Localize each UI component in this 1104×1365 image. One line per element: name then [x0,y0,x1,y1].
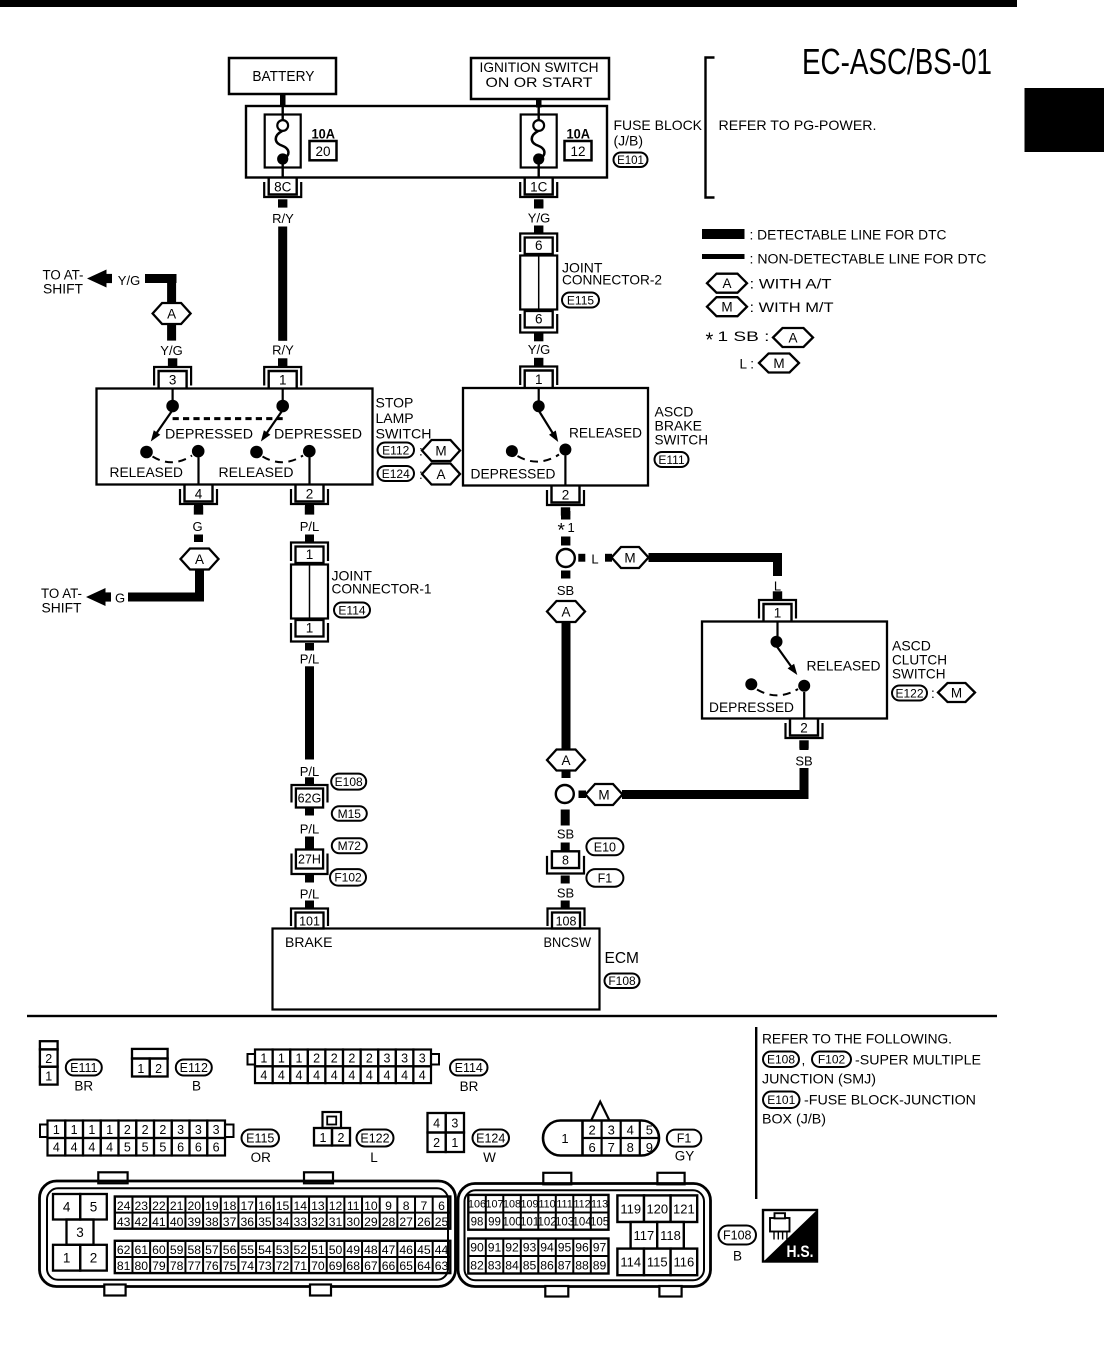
svg-text:25: 25 [435,1215,449,1229]
svg-text:114: 114 [620,1255,641,1270]
svg-text:27: 27 [399,1215,413,1229]
connector label E115 OR [242,1130,280,1166]
svg-text:92: 92 [505,1241,519,1255]
terminal 3 [154,358,191,388]
legend L M [740,354,800,373]
svg-text:EC-ASC/BS-01: EC-ASC/BS-01 [802,41,992,82]
svg-text:Y/G: Y/G [160,343,182,358]
svg-text:1: 1 [45,1070,52,1084]
svg-text:110: 110 [538,1199,555,1211]
wire *1 below terminal 2 [561,511,570,520]
svg-text:2: 2 [433,1136,440,1150]
svg-text:4: 4 [627,1123,634,1138]
connector label E122 with M [892,683,975,702]
svg-text:STOP: STOP [376,395,414,411]
svg-text:112: 112 [573,1199,590,1211]
svg-text:CONNECTOR-1: CONNECTOR-1 [332,581,432,597]
svg-text:3: 3 [401,1052,408,1066]
svg-text:91: 91 [488,1241,502,1255]
svg-text:F102: F102 [334,871,362,885]
svg-text:17: 17 [240,1199,254,1213]
svg-text:1: 1 [279,373,287,388]
svg-text:66: 66 [382,1259,396,1273]
svg-text:E112: E112 [382,443,409,457]
svg-text:102: 102 [537,1217,556,1229]
connector label E114 [334,603,370,618]
svg-text:A: A [722,276,731,291]
svg-text:A: A [195,552,204,567]
wire SB below junction [561,571,570,579]
hexagon A on SB wire lower [547,750,585,771]
svg-text:6: 6 [535,312,543,327]
connector label E114 BR [450,1060,488,1095]
svg-text:R/Y: R/Y [272,343,294,358]
svg-text:ON OR START: ON OR START [486,74,593,90]
connector label M72 [332,838,367,853]
svg-text:Y/G: Y/G [118,273,140,288]
svg-text:101: 101 [299,914,320,928]
ECM connector F108 right shell [458,1173,711,1297]
wire SB thick return [800,768,809,799]
wire G to AT-shift [195,570,204,602]
svg-text:F1: F1 [677,1132,692,1146]
wire SB below clutch terminal 2 [800,742,809,750]
svg-text:2: 2 [45,1052,52,1066]
wire SB thick [562,622,571,750]
svg-text:: NON-DETECTABLE LINE FOR DTC: : NON-DETECTABLE LINE FOR DTC [750,252,987,267]
svg-text:42: 42 [135,1215,149,1229]
terminal 108 [548,909,585,929]
svg-text:41: 41 [152,1215,166,1229]
svg-text:9: 9 [646,1140,653,1155]
svg-text:E122: E122 [360,1132,389,1146]
svg-text:63: 63 [435,1259,449,1273]
svg-text:119: 119 [620,1201,641,1216]
svg-text:2: 2 [313,1052,320,1066]
svg-text:1: 1 [320,1131,327,1145]
svg-text:SHIFT: SHIFT [43,282,83,297]
svg-text:1C: 1C [530,179,548,194]
svg-text:29: 29 [364,1215,378,1229]
connector label E101 [614,153,648,168]
svg-text:87: 87 [558,1258,572,1272]
svg-text:39: 39 [187,1215,201,1229]
connector label F108 [605,974,640,989]
svg-text:50: 50 [329,1243,343,1257]
hexagon A on G wire [181,549,219,570]
svg-text:RELEASED: RELEASED [219,465,294,480]
svg-text:108: 108 [556,914,577,928]
svg-text:117: 117 [634,1228,655,1243]
connector E112 pin view [132,1049,168,1077]
svg-text:99: 99 [488,1217,501,1229]
svg-text:1: 1 [88,1123,95,1137]
svg-text:64: 64 [417,1259,431,1273]
svg-text:L :: L : [740,357,755,372]
svg-text:E122: E122 [895,686,923,700]
svg-text:47: 47 [382,1243,396,1257]
hexagon A on Y/G wire [153,303,191,324]
svg-text:6: 6 [195,1141,202,1155]
svg-text:38: 38 [205,1215,219,1229]
svg-text:10A: 10A [567,126,591,142]
wire R/Y thick [278,227,287,341]
svg-text:E10: E10 [594,840,616,854]
svg-text:SB: SB [557,583,574,598]
svg-text:BR: BR [74,1079,93,1094]
svg-text:1: 1 [278,1052,285,1066]
fuse block E101 box [246,106,607,178]
svg-text:DEPRESSED: DEPRESSED [274,427,362,442]
svg-text:E115: E115 [567,293,594,307]
svg-text:6: 6 [177,1141,184,1155]
svg-text:BOX (J/B): BOX (J/B) [762,1111,826,1127]
joint connector-1 E114 [291,543,328,642]
legend *1 SB A [706,328,814,352]
svg-text:10A: 10A [312,126,336,142]
svg-text:IGNITION SWITCH: IGNITION SWITCH [480,59,599,75]
svg-text:7: 7 [608,1140,615,1155]
connector label F102 [330,869,366,886]
connector label E101 fuse block [763,1092,976,1109]
svg-text::: : [931,686,935,701]
svg-text:11: 11 [347,1199,360,1213]
svg-text:113: 113 [591,1199,608,1211]
svg-text:56: 56 [223,1243,237,1257]
svg-text:60: 60 [152,1243,166,1257]
svg-text:12: 12 [570,144,585,159]
svg-text:SB: SB [795,754,812,769]
connector label E124 with A [378,464,461,485]
svg-text:78: 78 [170,1259,184,1273]
svg-text:Y/G: Y/G [528,342,550,357]
svg-text:31: 31 [329,1215,343,1229]
svg-text:4: 4 [313,1068,320,1082]
svg-text:E115: E115 [246,1132,274,1146]
svg-text:109: 109 [521,1199,539,1211]
svg-text:-FUSE BLOCK-JUNCTION: -FUSE BLOCK-JUNCTION [804,1092,976,1108]
svg-text:120: 120 [646,1201,668,1216]
terminal 4 [180,485,217,515]
terminal 101 [291,909,328,929]
svg-text:48: 48 [364,1243,378,1257]
svg-text:: DETECTABLE LINE FOR DTC: : DETECTABLE LINE FOR DTC [750,228,947,243]
svg-text:81: 81 [117,1259,131,1273]
svg-text:4: 4 [71,1141,78,1155]
connector label E10 [586,838,623,855]
svg-text:1: 1 [296,1052,303,1066]
svg-text:85: 85 [523,1258,537,1272]
svg-text:GY: GY [675,1149,695,1164]
svg-text:B: B [733,1249,742,1264]
svg-text:ECM: ECM [605,950,639,967]
svg-text:OR: OR [251,1150,272,1165]
svg-text:2: 2 [306,486,314,501]
terminal 1C [520,178,557,208]
fuse F20 number 20 [310,141,337,160]
svg-text:58: 58 [187,1243,201,1257]
svg-text:101: 101 [520,1217,539,1229]
wire stub L [578,554,585,562]
svg-text:69: 69 [329,1259,343,1273]
svg-text:(J/B): (J/B) [614,133,644,149]
fuse F20 10A [265,107,301,178]
ECM box [273,929,600,1010]
svg-text:SHIFT: SHIFT [42,601,82,616]
svg-text:E114: E114 [338,603,365,617]
ascd clutch switch box [702,622,887,719]
svg-text:3: 3 [213,1123,220,1137]
svg-text:23: 23 [135,1199,149,1213]
svg-text:5: 5 [646,1123,653,1138]
svg-text:1: 1 [63,1251,71,1266]
svg-text:28: 28 [382,1215,396,1229]
svg-text:3: 3 [195,1123,202,1137]
svg-text:70: 70 [311,1259,325,1273]
svg-text:H.S.: H.S. [787,1243,814,1261]
svg-text:74: 74 [240,1259,254,1273]
junction node *1 [557,549,575,567]
svg-text:E111: E111 [658,453,685,467]
svg-text:82: 82 [470,1258,484,1272]
ECM connector pins 114-121 [617,1195,697,1275]
wire G below terminal 4 [194,505,203,513]
svg-text:L: L [591,552,598,567]
svg-text:59: 59 [170,1243,184,1257]
svg-text:: WITH M/T: : WITH M/T [750,300,834,315]
svg-text:77: 77 [187,1259,201,1273]
svg-text:SWITCH: SWITCH [376,426,432,442]
svg-text:E101: E101 [617,155,644,167]
svg-text:SB: SB [557,827,574,842]
svg-text:SB: SB [557,886,574,901]
svg-text:1: 1 [71,1123,78,1137]
connector label E122 L [357,1130,394,1166]
svg-text:26: 26 [417,1215,431,1229]
svg-text:M: M [773,356,784,371]
svg-text:,: , [802,1053,806,1068]
svg-text:62G: 62G [298,792,322,806]
svg-text:RELEASED: RELEASED [569,426,642,441]
svg-text:14: 14 [293,1199,307,1213]
svg-text:40: 40 [170,1215,184,1229]
svg-text:G: G [192,519,202,534]
svg-text:P/L: P/L [300,822,320,837]
svg-text:111: 111 [556,1199,572,1211]
connector label E112 B [176,1060,212,1094]
svg-text:5: 5 [90,1200,98,1215]
svg-text:RELEASED: RELEASED [110,465,184,480]
svg-text:103: 103 [555,1217,574,1229]
svg-text:2: 2 [366,1052,373,1066]
svg-text:P/L: P/L [300,519,320,534]
svg-text:71: 71 [293,1259,307,1273]
svg-text:20: 20 [187,1199,201,1213]
svg-text:1: 1 [53,1123,60,1137]
svg-text:45: 45 [417,1243,431,1257]
junction node SB [556,785,574,803]
svg-text:A: A [788,330,797,345]
terminal 2 ascd clutch [786,719,823,749]
svg-text:13: 13 [311,1199,325,1213]
svg-text:1: 1 [260,1052,267,1066]
svg-text:30: 30 [346,1215,360,1229]
svg-text:Y/G: Y/G [528,211,550,226]
terminal 1 ascd clutch [759,591,796,621]
svg-text:4: 4 [296,1068,303,1082]
wire SB stub [562,771,571,779]
svg-text:55: 55 [240,1243,254,1257]
legend detectable line [702,229,745,239]
connector label E112 with M [378,440,461,461]
terminal 1 ascd brake [520,358,557,388]
svg-text:4: 4 [384,1068,391,1082]
svg-text:6: 6 [588,1140,595,1155]
svg-text:53: 53 [276,1243,290,1257]
svg-text:P/L: P/L [300,764,320,779]
svg-text:2: 2 [800,720,808,735]
svg-text:68: 68 [346,1259,360,1273]
fuse F12 number 12 [565,141,592,160]
svg-text:52: 52 [293,1243,307,1257]
stop lamp switch pole link dashed [173,417,283,420]
svg-text:5: 5 [124,1141,131,1155]
connector label E115 [562,293,599,308]
ECM connector left pin block rows 6-43 [115,1197,451,1229]
svg-text:M: M [951,685,962,700]
svg-text:M: M [721,300,732,315]
svg-text:8C: 8C [274,179,292,194]
wire SB [561,876,570,884]
svg-text:A: A [167,306,176,321]
connector F1 pin view [543,1102,659,1156]
svg-text:1: 1 [306,621,314,636]
svg-text:A: A [561,604,570,619]
ECM connector left pin block rows 44-81 [115,1241,451,1273]
legend non-detectable line [702,254,745,259]
svg-text:21: 21 [170,1199,184,1213]
svg-text:DEPRESSED: DEPRESSED [709,700,794,715]
svg-text:: WITH A/T: : WITH A/T [750,277,832,292]
svg-text:6: 6 [213,1141,220,1155]
svg-text:TO AT-: TO AT- [43,268,84,283]
wire L thick to clutch switch [649,553,783,562]
stop lamp switch pole 1 [140,389,204,485]
svg-text:E101: E101 [767,1093,795,1107]
svg-text:REFER TO PG-POWER.: REFER TO PG-POWER. [719,117,877,133]
svg-text:7: 7 [420,1199,427,1213]
stop lamp switch box [97,389,373,485]
joint connector-2 E115 [520,234,557,333]
svg-text:BR: BR [460,1079,479,1094]
svg-text:M: M [598,787,609,802]
svg-text:4: 4 [419,1068,426,1082]
svg-text:76: 76 [205,1259,219,1273]
svg-text:98: 98 [471,1217,484,1229]
svg-text:100: 100 [502,1217,521,1229]
ECM connector small pin grid 1-5 [53,1194,107,1271]
svg-text:5: 5 [159,1141,166,1155]
connector label E111 BR [66,1060,102,1094]
svg-text:RELEASED: RELEASED [807,659,881,674]
hexagon A on SB wire [547,601,585,622]
svg-text:4: 4 [53,1141,60,1155]
svg-text:E108: E108 [767,1053,795,1067]
svg-text:2: 2 [155,1062,162,1076]
svg-text:75: 75 [223,1259,237,1273]
svg-text:4: 4 [195,486,203,501]
svg-text:F102: F102 [818,1053,846,1067]
svg-text:93: 93 [523,1241,537,1255]
svg-text:A: A [436,467,445,482]
svg-text:8: 8 [403,1199,410,1213]
H.S. data link connector logo [763,1210,817,1262]
to AT-shift arrow G [41,586,111,616]
connector E124 pin view [428,1113,465,1152]
svg-text:5: 5 [142,1141,149,1155]
svg-text:REFER TO THE FOLLOWING.: REFER TO THE FOLLOWING. [762,1031,952,1047]
svg-text:4: 4 [260,1068,267,1082]
connector label F1 GY [667,1130,702,1164]
svg-text:33: 33 [293,1215,307,1229]
svg-text:2: 2 [562,487,570,502]
svg-text:15: 15 [276,1199,290,1213]
wire ignition switch to fuse block [536,99,542,108]
wire Y/G joint connector branch [534,201,543,209]
svg-text:65: 65 [399,1259,413,1273]
svg-text:2: 2 [124,1123,131,1137]
svg-text:W: W [483,1150,496,1165]
svg-text:SWITCH: SWITCH [655,432,709,448]
svg-text:M: M [624,550,635,565]
svg-text:4: 4 [366,1068,373,1082]
svg-text:10: 10 [364,1199,378,1213]
svg-text:12: 12 [329,1199,343,1213]
connector E122 pin view [314,1112,350,1146]
svg-text:R/Y: R/Y [272,211,294,226]
svg-text:6: 6 [535,238,543,253]
stop lamp switch pole 2 [250,389,315,485]
svg-text:95: 95 [558,1241,572,1255]
ascd brake switch contact [506,388,572,486]
svg-text:M72: M72 [338,839,362,853]
svg-text:DEPRESSED: DEPRESSED [471,467,556,482]
fuse F12 10A [521,107,557,178]
wire P/L [305,808,314,816]
svg-text:P/L: P/L [300,887,320,902]
svg-text:1: 1 [451,1136,458,1150]
svg-text:BRAKE: BRAKE [285,934,333,950]
svg-text:L: L [774,579,781,594]
svg-text:E124: E124 [382,467,410,481]
wire P/L below terminal 2 [305,505,314,513]
svg-text:94: 94 [540,1241,554,1255]
svg-text:4: 4 [63,1200,71,1215]
svg-text:1: 1 [568,520,575,535]
svg-text:106: 106 [468,1199,486,1211]
svg-text:8: 8 [627,1140,634,1155]
svg-text:2: 2 [588,1123,595,1138]
svg-text:L: L [370,1150,378,1165]
wire battery to fuse block [280,94,286,108]
terminal 1 [264,358,301,388]
svg-text:62: 62 [117,1243,131,1257]
svg-text:105: 105 [590,1217,609,1229]
svg-text:73: 73 [258,1259,272,1273]
svg-text:1: 1 [106,1123,113,1137]
svg-text:32: 32 [311,1215,325,1229]
svg-text:F1: F1 [598,871,613,885]
